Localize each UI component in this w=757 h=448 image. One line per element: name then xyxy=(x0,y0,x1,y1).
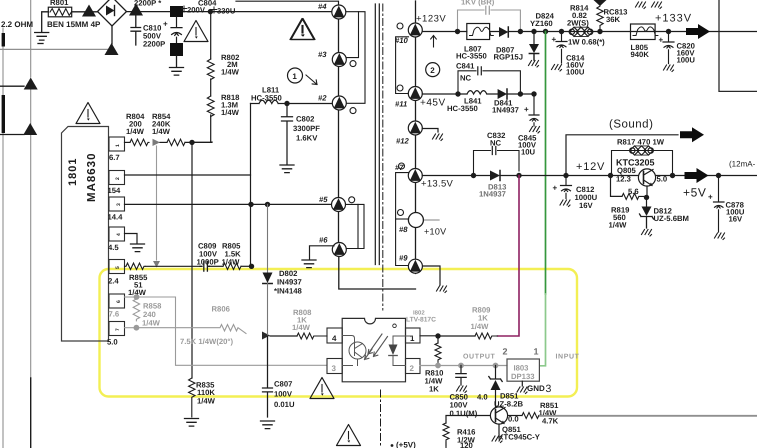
svg-text:6: 6 xyxy=(116,300,122,303)
warning triangle (near C810) xyxy=(184,21,208,42)
chassis (Q851) xyxy=(492,436,502,443)
svg-text:1/4W: 1/4W xyxy=(197,397,216,406)
warning triangle above IC1801 xyxy=(76,103,100,124)
inductor L811 xyxy=(251,86,288,104)
svg-text:7: 7 xyxy=(115,328,121,331)
svg-text:+10V: +10V xyxy=(424,227,446,237)
diode D802 xyxy=(263,269,303,336)
node dot (pin1 net) xyxy=(435,333,440,338)
primary return wire (bottom) xyxy=(339,257,416,290)
svg-text:R806: R806 xyxy=(212,305,230,314)
label OUTPUT xyxy=(463,354,495,361)
gray wire pin6 xyxy=(125,296,135,298)
ground (R801) xyxy=(35,33,49,41)
wire R801 left to ground xyxy=(42,12,49,32)
chassis (C850) xyxy=(457,386,467,393)
left frame wire (gray vertical x=3) xyxy=(2,28,4,448)
node dot (L841 left) xyxy=(455,91,460,96)
svg-text:*IN4148: *IN4148 xyxy=(274,287,303,296)
polarity dot #7 xyxy=(399,163,405,169)
chassis (C845) xyxy=(530,127,540,134)
capacitor C814 xyxy=(552,32,586,77)
node dot (D824) xyxy=(531,29,536,34)
svg-text:2: 2 xyxy=(115,177,121,180)
resistor R858 (gray) xyxy=(133,299,162,328)
node dot (+5V stub) xyxy=(391,444,394,447)
svg-text:154: 154 xyxy=(108,186,122,195)
svg-text:2.4: 2.4 xyxy=(108,277,119,286)
resistor R854 xyxy=(152,112,212,146)
pin 3 box xyxy=(108,197,125,222)
+123V rail wire xyxy=(422,31,757,33)
zener D812 xyxy=(640,197,689,228)
bridge rectifier BD801 xyxy=(98,0,127,26)
svg-text:+13.5V: +13.5V xyxy=(421,179,454,190)
capacitor C841 (NC) loop xyxy=(456,62,520,95)
secondary tap bus (lower) xyxy=(396,173,409,266)
svg-text:7.6: 7.6 xyxy=(109,310,120,319)
page border corner xyxy=(719,0,757,91)
resistor R416 xyxy=(443,416,490,448)
svg-text:1: 1 xyxy=(115,144,121,147)
svg-text:I802: I802 xyxy=(413,310,425,317)
svg-text:1000P: 1000P xyxy=(197,258,219,267)
svg-text:#11: #11 xyxy=(395,100,407,109)
svg-text:5.0: 5.0 xyxy=(107,338,118,347)
resistor R809 xyxy=(438,306,498,340)
node dot (D813 out / magenta) xyxy=(516,173,521,178)
svg-text:R817 470 1W: R817 470 1W xyxy=(617,138,665,147)
transistor Q805 KTC3205 xyxy=(616,158,667,187)
svg-text:5.0: 5.0 xyxy=(657,175,668,184)
wire opto pin1 to node xyxy=(420,335,438,337)
inductor L841 xyxy=(447,91,487,113)
gray tap arrow (pin1 net) xyxy=(153,139,161,146)
secondary tap bus (upper) xyxy=(396,37,409,94)
top feed wire (y=1) xyxy=(236,1,339,5)
secondary winding stem xyxy=(415,1,417,274)
resistor R802 xyxy=(207,12,239,80)
svg-text:1K: 1K xyxy=(429,385,439,394)
wire R835 feed (x=192 down) xyxy=(191,142,193,378)
svg-text:3: 3 xyxy=(116,203,122,206)
black tap arrow into D802 line xyxy=(262,332,270,340)
svg-text:+: + xyxy=(659,36,664,45)
ground (C804) xyxy=(170,68,184,76)
warning triangle (above transformer) xyxy=(291,19,315,40)
left frame thick black segment A xyxy=(2,33,5,47)
node dot (D807 out) xyxy=(518,29,523,34)
wire pin4 to ground xyxy=(125,234,138,244)
pin 2 box xyxy=(108,171,125,196)
warning triangle (near C804) xyxy=(290,19,314,40)
label +5V xyxy=(683,186,707,200)
resistor R801 xyxy=(48,0,71,17)
node dot (R819 tap) xyxy=(608,173,613,178)
wire pad to ground xyxy=(176,56,178,67)
winding #10 xyxy=(395,23,422,45)
resistor R806 (gray) xyxy=(136,305,246,347)
capacitor C845 xyxy=(518,94,539,157)
warning triangle (bottom middle) xyxy=(337,425,361,446)
warning triangle (above C807) xyxy=(310,378,334,399)
IC I801 MA8630 body xyxy=(62,127,109,342)
capacitor C878 xyxy=(708,176,745,233)
svg-text:1801: 1801 xyxy=(67,158,79,186)
diode D807 xyxy=(494,27,524,62)
label +12V xyxy=(576,161,605,173)
svg-text:100U: 100U xyxy=(677,56,696,65)
node dot (L807 left) xyxy=(455,29,460,34)
svg-text:C807: C807 xyxy=(274,380,292,389)
svg-text:1/4W: 1/4W xyxy=(142,319,161,328)
resistor R855 xyxy=(125,263,201,297)
svg-text:5: 5 xyxy=(115,266,121,269)
connector triangle below bridge xyxy=(105,43,119,55)
node dot (D802 line x pin3) xyxy=(265,202,270,207)
svg-text:+: + xyxy=(163,20,168,29)
svg-text:UZ-5.6BM: UZ-5.6BM xyxy=(654,214,689,223)
pin 4 box xyxy=(108,227,125,252)
chassis (I803 GND) xyxy=(517,387,527,394)
svg-text:6.7: 6.7 xyxy=(109,153,120,162)
label 2200P* (top edge) xyxy=(134,0,161,8)
resistor R808 xyxy=(270,308,327,339)
svg-text:1/4W: 1/4W xyxy=(292,323,311,332)
winding #12 xyxy=(396,121,422,146)
svg-text:C841: C841 xyxy=(456,62,475,71)
svg-text:HC-3550: HC-3550 xyxy=(251,94,282,103)
svg-text:120: 120 xyxy=(460,441,473,448)
svg-text:LTV-817C: LTV-817C xyxy=(406,317,436,324)
svg-text:200V: 200V xyxy=(187,6,206,15)
svg-text:+: + xyxy=(552,35,557,44)
sound feed wire xyxy=(566,135,678,176)
svg-text:10U: 10U xyxy=(521,148,536,157)
node dot (Q805 right) xyxy=(670,173,675,178)
svg-text:(+5V): (+5V) xyxy=(396,441,416,448)
winding #5 xyxy=(319,195,346,212)
svg-text:1: 1 xyxy=(292,72,297,81)
svg-text:1N4937: 1N4937 xyxy=(479,190,506,199)
pad (black square lower) xyxy=(170,43,183,56)
inductor L805 xyxy=(631,24,658,59)
connector triangle before C810 xyxy=(129,4,143,16)
svg-text:+: + xyxy=(708,193,713,202)
node dot pin1 net xyxy=(189,140,194,145)
svg-text:HC-3550: HC-3550 xyxy=(447,104,478,113)
svg-text:+: + xyxy=(524,105,529,114)
svg-text:GND: GND xyxy=(527,384,545,393)
svg-text:2: 2 xyxy=(430,66,435,75)
green trace (regulation sense) xyxy=(540,32,546,366)
magenta trace (B+ adjust) xyxy=(498,176,520,337)
svg-text:1/4W: 1/4W xyxy=(471,322,490,331)
transformer T801 core xyxy=(375,4,383,310)
gray wire to right edge xyxy=(540,415,757,417)
node dot (C878) xyxy=(716,173,721,178)
pin 5 box xyxy=(108,260,125,286)
chassis stub (top b) xyxy=(652,2,662,9)
opto LED arrows xyxy=(365,334,388,360)
resistor RC813 xyxy=(597,5,628,32)
wire pin3 to winding #5 xyxy=(125,203,333,205)
gray arrow into pin5 net xyxy=(153,261,160,268)
gray node dot (C850) xyxy=(458,363,464,369)
highlight box (yellow) around standby/feedback circuit xyxy=(100,269,578,397)
node dot (C814) xyxy=(559,29,564,34)
svg-text:16V: 16V xyxy=(579,201,594,210)
primary tap bracket (lower) xyxy=(346,204,365,248)
svg-text:330U: 330U xyxy=(217,7,236,16)
winding #8 (open) xyxy=(399,213,423,235)
gray return wire (y=49.4) xyxy=(0,48,112,50)
resistor R818 xyxy=(192,79,240,142)
svg-text:2.2 OHM: 2.2 OHM xyxy=(1,20,33,29)
opto pin 2 box xyxy=(406,359,421,374)
resistor R804 xyxy=(125,112,150,146)
svg-text:YZ160: YZ160 xyxy=(530,19,553,28)
ground (winding #6) xyxy=(302,260,316,268)
resistor R805 xyxy=(209,242,251,270)
node dot (L811/C802) xyxy=(284,101,289,106)
svg-text:#2: #2 xyxy=(318,94,327,103)
svg-text:+: + xyxy=(553,184,558,193)
resistor R819 xyxy=(609,176,644,230)
svg-text:(12mA-: (12mA- xyxy=(729,160,756,169)
node dot (D841 out) xyxy=(518,91,523,96)
optocoupler I802 LTV-817C xyxy=(342,310,436,382)
label BEN 15MM 4P xyxy=(47,20,101,29)
wire node to winding #2 xyxy=(287,103,333,105)
capacitor C820 xyxy=(659,32,696,65)
svg-text:+5V: +5V xyxy=(683,186,707,200)
resistor R835 xyxy=(189,378,216,417)
left bus wire (x=30.7 vertical) xyxy=(30,0,32,448)
opto pin 4 box xyxy=(327,328,342,343)
winding #7 xyxy=(395,163,422,183)
+133V output arrow xyxy=(686,24,710,39)
svg-text:3300PF: 3300PF xyxy=(293,124,320,133)
gray node dot (R810) xyxy=(435,363,441,369)
svg-text:NC: NC xyxy=(490,139,502,148)
gray wire pin7 xyxy=(125,327,135,329)
svg-text:+12V: +12V xyxy=(576,161,605,173)
svg-text:#4: #4 xyxy=(318,2,327,11)
svg-text:16V: 16V xyxy=(729,215,744,224)
gray node dot pin7 xyxy=(134,325,140,331)
svg-text:BEN 15MM 4P: BEN 15MM 4P xyxy=(47,20,101,29)
svg-text:1W 0.68(*): 1W 0.68(*) xyxy=(568,38,605,47)
gray line pin3-net to D802/C807 xyxy=(267,204,269,272)
wire pin2 to L811 riser xyxy=(125,104,251,176)
svg-text:4.0: 4.0 xyxy=(477,393,488,402)
wire winding #9 to chassis xyxy=(423,266,440,285)
svg-text:2W(S): 2W(S) xyxy=(567,19,589,28)
gray node dot (D851) xyxy=(493,363,499,369)
wire winding #6 to ground xyxy=(310,246,335,259)
svg-text:+133V: +133V xyxy=(655,13,692,25)
svg-text:1/4W: 1/4W xyxy=(221,68,240,77)
gray feedback wire to opto pin3 xyxy=(137,297,327,365)
label (Sound) xyxy=(609,119,653,131)
wire stub at y=134 xyxy=(0,134,24,136)
node dot (pin5 net / riser) xyxy=(249,264,254,269)
node dot (C812 / sound tap) xyxy=(563,173,568,178)
node dot (C845) xyxy=(531,91,536,96)
label 1W 0.68(*) xyxy=(568,38,605,47)
wire bridge right to C804 pad / node xyxy=(127,11,334,13)
primary tap bracket (top) xyxy=(346,12,365,104)
circled 2 marker xyxy=(426,36,440,77)
svg-text:MA8630: MA8630 xyxy=(86,153,98,202)
svg-text:NC: NC xyxy=(460,74,472,83)
svg-text:100V: 100V xyxy=(274,390,293,399)
fusible resistor R814 xyxy=(567,4,593,37)
chassis (C812) xyxy=(560,200,570,207)
pin 7 box xyxy=(107,322,125,347)
capacitor C807 xyxy=(263,336,295,417)
label +123V xyxy=(416,14,446,25)
polarity dot #2 xyxy=(350,108,356,114)
gray stub at winding #8 xyxy=(425,219,439,221)
label C804 values xyxy=(182,0,236,16)
svg-text:1: 1 xyxy=(534,347,539,357)
capacitor C812 xyxy=(553,176,598,211)
svg-text:4.5: 4.5 xyxy=(108,243,119,252)
polarity dot #11 xyxy=(397,85,403,91)
svg-text:3: 3 xyxy=(546,383,552,395)
svg-text:2200P *: 2200P * xyxy=(134,0,161,8)
regulator I803 DP133 xyxy=(503,347,540,382)
+13.5V rail wire xyxy=(422,175,757,177)
ground (C802) xyxy=(280,165,294,173)
svg-text:5.6: 5.6 xyxy=(628,187,639,196)
label INPUT xyxy=(556,354,580,361)
chassis (D812) xyxy=(642,230,652,237)
node dot (D813 in) xyxy=(471,173,476,178)
svg-text:#3: #3 xyxy=(318,50,327,59)
zener D824 xyxy=(529,12,555,61)
svg-text:2: 2 xyxy=(410,364,415,373)
svg-text:+45V: +45V xyxy=(420,98,446,109)
capacitor C802 xyxy=(282,104,321,165)
svg-text:#12: #12 xyxy=(396,137,410,146)
svg-text:1.6KV: 1.6KV xyxy=(296,134,318,143)
svg-text:DP133: DP133 xyxy=(511,372,535,381)
svg-text:0.01U: 0.01U xyxy=(274,400,295,409)
svg-text:0.1U(M): 0.1U(M) xyxy=(450,409,478,418)
chassis (D824) xyxy=(529,61,539,68)
polarity dot #8 xyxy=(398,210,404,216)
wire to connector triangle (y=86) xyxy=(0,85,24,87)
fusible resistor R817 xyxy=(612,138,673,176)
opto LED diode xyxy=(389,336,413,366)
svg-text:12.3: 12.3 xyxy=(616,175,631,184)
svg-text:KTC945C-Y: KTC945C-Y xyxy=(498,433,540,442)
ground (R835) xyxy=(185,419,199,427)
svg-text:HC-3550: HC-3550 xyxy=(456,52,487,61)
label +133V xyxy=(655,13,692,25)
connector triangle on left bus (upper) xyxy=(24,78,38,90)
svg-text:3: 3 xyxy=(332,364,337,373)
connector triangle (RC813 top, down) xyxy=(594,0,607,6)
svg-text:C802: C802 xyxy=(296,115,314,124)
svg-text:#5: #5 xyxy=(319,195,328,204)
isolation dash line (below opto) xyxy=(380,390,382,448)
label +45V xyxy=(420,98,446,109)
label +10V xyxy=(424,227,446,237)
capacitor C850 xyxy=(450,366,478,419)
polarity dot #10 xyxy=(397,23,403,29)
sound output arrow xyxy=(680,127,704,142)
gray output bus (opto pin2) xyxy=(420,365,507,367)
resistor R810 xyxy=(425,336,444,394)
svg-text:#8: #8 xyxy=(399,225,408,234)
winding #4 xyxy=(318,2,346,19)
svg-text:IN4937: IN4937 xyxy=(277,278,302,287)
chassis (winding #9) xyxy=(437,286,447,293)
resistor R851 xyxy=(508,401,560,426)
svg-text:#6: #6 xyxy=(319,236,328,245)
svg-text:1: 1 xyxy=(410,334,415,343)
wire (+5V) stub xyxy=(445,442,447,448)
opto phototransistor xyxy=(342,336,366,366)
node dot (RC813) xyxy=(597,29,602,34)
inductor L807 xyxy=(456,24,493,61)
emitter wire to R819 node xyxy=(646,186,648,197)
svg-text:1/4W: 1/4W xyxy=(221,108,240,117)
connector triangle on left bus (lower) xyxy=(23,123,37,135)
svg-text:+123V: +123V xyxy=(416,14,446,25)
node dot (green tap) xyxy=(543,29,548,34)
node dot (C820) xyxy=(666,29,671,34)
svg-text:4: 4 xyxy=(116,233,122,236)
chassis (C878) xyxy=(715,233,725,240)
winding #11 xyxy=(395,87,422,109)
left frame thick black segment B xyxy=(2,95,5,133)
svg-text:(Sound): (Sound) xyxy=(609,119,653,131)
+45V rail wire xyxy=(422,93,534,95)
svg-text:2200P: 2200P xyxy=(143,40,165,49)
capacitor C809 xyxy=(197,242,219,272)
pad (black square upper) xyxy=(170,6,183,17)
svg-text:100U: 100U xyxy=(566,68,585,77)
wire bridge bottom xyxy=(111,26,113,44)
capacitor C804 xyxy=(163,17,182,43)
capacitor C810 xyxy=(131,16,165,49)
winding #2 xyxy=(318,94,346,111)
gray node dot pin6 xyxy=(134,294,140,300)
circled 1 marker xyxy=(288,68,318,85)
label +13.5V xyxy=(421,179,454,190)
svg-text:2: 2 xyxy=(503,347,508,357)
gray sense wire down from pin1 net xyxy=(156,146,158,260)
wire riser lower (x=250.5) xyxy=(250,175,252,266)
svg-text:4.7K: 4.7K xyxy=(542,417,559,426)
ground (pin4) xyxy=(131,244,145,252)
pin 6 box xyxy=(109,294,125,319)
svg-text:36K: 36K xyxy=(606,15,621,24)
svg-text:1/4W: 1/4W xyxy=(152,127,171,136)
wire R801 right to bridge xyxy=(72,11,98,13)
chassis stub (top a) xyxy=(636,2,646,9)
polarity dot #5 xyxy=(349,197,355,203)
winding #6 xyxy=(319,236,346,257)
wire winding #12 to chassis xyxy=(422,129,438,133)
label 2.2 OHM xyxy=(1,20,33,29)
+5V output arrow xyxy=(685,168,709,183)
